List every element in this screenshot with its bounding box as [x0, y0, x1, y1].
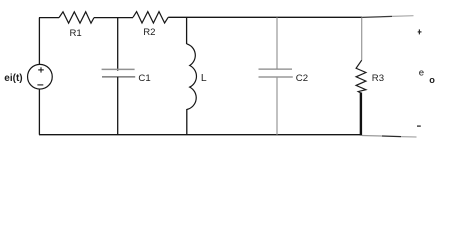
svg-text:o: o	[429, 75, 435, 85]
wire top horizontal (node between source, R1, R2, branches)	[39, 16, 362, 18]
wire bottom output tail gray end	[401, 136, 417, 138]
svg-text:e: e	[419, 68, 424, 79]
wire L lower lead	[186, 109, 188, 135]
wire top output tail gray end	[392, 15, 414, 18]
wire top output tail	[362, 16, 392, 17]
wire R3 lower lead (thick)	[360, 93, 362, 136]
capacitor C2 bottom plate	[259, 76, 293, 78]
wire bottom output tail black	[382, 135, 401, 138]
svg-text:R1: R1	[70, 28, 82, 39]
capacitor C2 top plate	[259, 68, 293, 70]
wire bottom output tail gray	[362, 135, 382, 138]
wire L upper lead	[186, 17, 188, 44]
resistor R2 zigzag	[133, 12, 168, 23]
voltage source ei(t) circle	[28, 64, 53, 89]
wire source bottom lead	[38, 89, 40, 135]
wire R3 upper lead (gray)	[361, 17, 363, 60]
wire C2 lower lead (gray)	[276, 77, 278, 135]
svg-text:R3: R3	[372, 73, 384, 84]
svg-text:ei(t): ei(t)	[4, 73, 22, 84]
svg-text:C2: C2	[296, 73, 308, 84]
resistor R1 zigzag	[59, 12, 94, 23]
svg-text:L: L	[201, 73, 207, 84]
voltage source plus mark	[38, 67, 44, 72]
wire C2 upper lead (gray)	[276, 17, 278, 69]
wire bottom horizontal (ground return)	[39, 134, 362, 136]
resistor R3 zigzag	[356, 60, 366, 93]
inductor L coil	[187, 44, 197, 110]
wire source top lead	[38, 18, 40, 65]
output minus mark	[417, 125, 421, 127]
output plus mark	[418, 29, 422, 34]
voltage source minus mark	[37, 84, 43, 86]
wire C1 upper lead	[117, 18, 119, 71]
svg-text:C1: C1	[138, 73, 150, 84]
capacitor C1 top plate	[102, 68, 135, 70]
svg-text:R2: R2	[143, 27, 155, 38]
wire C1 lower lead	[117, 77, 119, 135]
capacitor C1 bottom plate	[102, 76, 135, 78]
